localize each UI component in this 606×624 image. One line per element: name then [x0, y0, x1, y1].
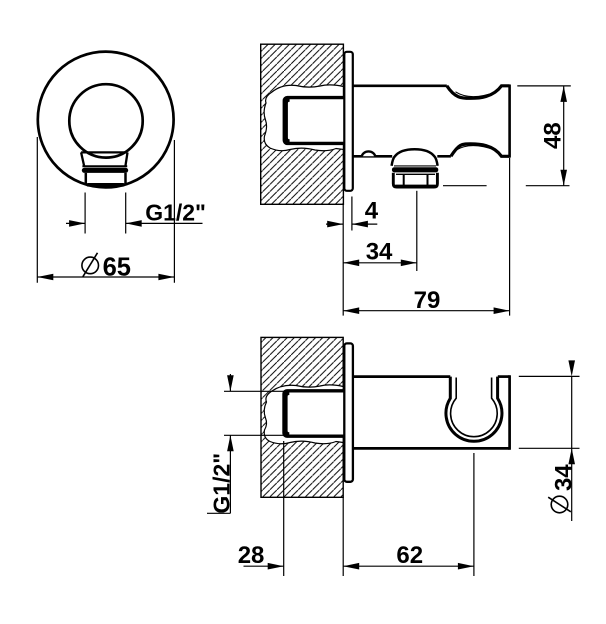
nut bottom bar: [395, 185, 437, 188]
holder waist thin top highlight: [456, 92, 497, 97]
extension line fork centre (62): [473, 453, 475, 576]
holder body outline (top view): [353, 375, 510, 450]
svg-text:48: 48: [540, 122, 567, 149]
o-ring collar band: [82, 168, 128, 173]
wall section (side view): [261, 44, 344, 204]
extension lines for diameter 34: [519, 376, 580, 448]
holder boss inner circle: [69, 84, 142, 157]
dimension diameter 34: [571, 376, 573, 521]
escutcheon flange (top view): [344, 343, 353, 481]
dimension 48: [563, 86, 565, 186]
nut facet lines: [396, 174, 435, 186]
wall section (top view): [261, 337, 343, 497]
svg-text:62: 62: [396, 542, 423, 569]
extension line nut centre (34): [416, 191, 418, 271]
extension lines for 48: [443, 86, 571, 186]
wall cut-away blob (side view): [264, 85, 343, 151]
dimension 28: [244, 565, 284, 567]
svg-text:G1/2": G1/2": [145, 199, 206, 225]
extension line flange right: [351, 197, 353, 231]
wall cut-away blob (top view): [264, 385, 343, 444]
dimension 62: [343, 565, 474, 567]
svg-text:34: 34: [550, 464, 577, 491]
holder waist concave top curve: [447, 86, 510, 99]
holder fork outer contour (top view): [446, 377, 502, 442]
dimension 34: [343, 262, 417, 264]
thread bottom bar: [87, 183, 125, 187]
holder fork inner contour (top view): [451, 378, 498, 437]
extension line wall face (shared 4/34/79): [342, 204, 344, 315]
dimension G1/2" (top view): [207, 374, 230, 513]
extension lines G1/2 (top view): [224, 391, 284, 435]
outlet hose nut: [393, 173, 437, 187]
dimension 4: [326, 223, 377, 225]
diameter symbol for 65: [82, 253, 99, 277]
holder waist thin bottom highlight: [456, 146, 496, 151]
svg-text:79: 79: [414, 287, 441, 314]
set-screw bump on body bottom: [362, 151, 375, 156]
svg-text:28: 28: [238, 542, 265, 569]
dimension 65 line: [37, 276, 174, 278]
dimension 79: [343, 310, 509, 312]
extension lines for G1/2 (front): [85, 193, 126, 234]
escutcheon outer circle: [38, 52, 174, 188]
wall pipe socket (top view): [284, 391, 348, 436]
outlet collar ring: [394, 165, 436, 167]
extension line wall face (28/62): [342, 497, 344, 576]
extension lines for diameter 65: [37, 137, 174, 283]
holder waist concave bottom curve: [451, 144, 510, 156]
wall pipe socket (side view): [284, 98, 348, 144]
holder body outline (side view): [353, 85, 510, 158]
G1/2 thread section: [86, 173, 126, 185]
svg-text:34: 34: [366, 238, 393, 265]
extension line socket left (28): [283, 441, 285, 576]
diameter symbol for 34 (rotated): [548, 496, 571, 513]
outlet dome: [392, 149, 438, 166]
svg-text:4: 4: [365, 198, 379, 225]
svg-text:65: 65: [103, 254, 131, 282]
extension line body right edge (79): [509, 158, 511, 316]
outlet neck below inner circle: [81, 152, 127, 166]
svg-text:G1/2": G1/2": [209, 453, 235, 514]
escutcheon flange (side view): [344, 52, 353, 191]
dimension G1/2" (front): [66, 222, 203, 224]
